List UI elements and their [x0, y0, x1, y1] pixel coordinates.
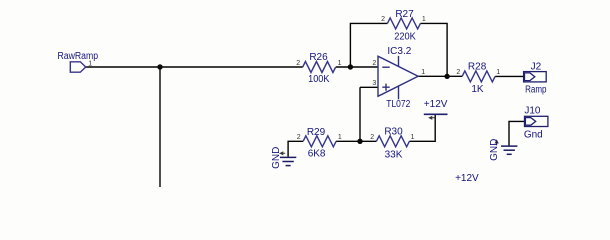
svg-text:3: 3: [372, 80, 376, 87]
svg-text:Ramp: Ramp: [525, 85, 547, 96]
svg-text:R26: R26: [309, 52, 328, 63]
resistor R29: [303, 136, 336, 147]
svg-text:6K8: 6K8: [308, 148, 326, 159]
svg-text:1: 1: [338, 134, 342, 141]
connector J2 body: [524, 72, 547, 82]
supply +12V bar symbol: [424, 113, 448, 115]
op-amp U IC3.2 triangle: [378, 56, 418, 99]
resistor R30: [376, 136, 409, 147]
svg-text:2: 2: [456, 69, 460, 76]
svg-text:R27: R27: [395, 9, 414, 20]
wire feedback left: node up and across to R27: [350, 23, 387, 67]
wire R28 to J2: [495, 75, 523, 77]
svg-text:TL072: TL072: [386, 99, 410, 110]
svg-text:1: 1: [421, 69, 425, 76]
wire RawRamp to R26: [86, 66, 303, 68]
svg-text:2: 2: [370, 134, 374, 141]
wire R29 to R30: [336, 140, 376, 142]
op-amp power pin stub top: [398, 56, 400, 67]
connector J10 body: [525, 116, 548, 126]
svg-text:1: 1: [88, 61, 92, 68]
svg-text:100K: 100K: [308, 74, 330, 85]
svg-text:1: 1: [496, 69, 500, 76]
svg-text:1K: 1K: [471, 84, 484, 95]
svg-text:R30: R30: [384, 127, 403, 138]
op-amp power pin stub bottom: [398, 86, 400, 99]
svg-text:2: 2: [372, 60, 376, 67]
resistor R28: [462, 71, 495, 82]
wire op-amp noninverting input: [360, 86, 378, 88]
op-amp plus input mark: [382, 84, 389, 91]
wire GND to R29: [288, 141, 303, 157]
svg-text:220K: 220K: [394, 32, 416, 43]
svg-text:33K: 33K: [385, 150, 403, 161]
svg-text:2: 2: [297, 134, 301, 141]
op-amp minus input mark: [382, 66, 389, 68]
svg-text:2: 2: [296, 60, 300, 67]
svg-text:1: 1: [338, 60, 342, 67]
ground symbol left: [280, 157, 296, 165]
svg-text:RawRamp: RawRamp: [58, 51, 99, 62]
wire feedback right: R27 to output node: [420, 23, 447, 76]
svg-text:1: 1: [422, 16, 426, 23]
svg-text:+12V: +12V: [424, 99, 448, 110]
wire vertical from node at x160 down: [159, 67, 161, 187]
svg-text:J10: J10: [524, 106, 541, 117]
connector RawRamp symbol: [70, 62, 85, 72]
wire R30 to +12V: [409, 115, 435, 141]
svg-text:2: 2: [381, 16, 385, 23]
svg-text:GND: GND: [271, 147, 282, 169]
svg-text:1: 1: [411, 134, 415, 141]
svg-text:R28: R28: [468, 61, 487, 72]
svg-text:GND: GND: [489, 139, 500, 161]
junction node output / feedback: [444, 74, 449, 79]
ground symbol right (J10): [501, 146, 517, 154]
junction node on input wire x160: [157, 64, 162, 69]
supply +12V pin arrow mark: [429, 117, 434, 120]
ground left pin arrow mark: [280, 152, 285, 155]
svg-text:J2: J2: [531, 62, 542, 73]
ground right pin arrow mark: [495, 140, 498, 145]
svg-text:Gnd: Gnd: [524, 130, 543, 141]
svg-text:+12V: +12V: [455, 173, 479, 184]
resistor R27: [387, 18, 420, 29]
resistor R26: [303, 62, 336, 73]
wire R26 to op-amp inverting input: [336, 66, 378, 68]
wire vertical pin3 to bottom node: [359, 87, 361, 141]
svg-text:IC3.2: IC3.2: [387, 46, 411, 57]
wire op-amp output to R28: [418, 75, 462, 77]
wire J10 to GND: [509, 121, 525, 145]
junction node R29/R30/pin3: [357, 139, 362, 144]
junction node inverting input / feedback: [348, 64, 353, 69]
svg-text:R29: R29: [307, 127, 326, 138]
